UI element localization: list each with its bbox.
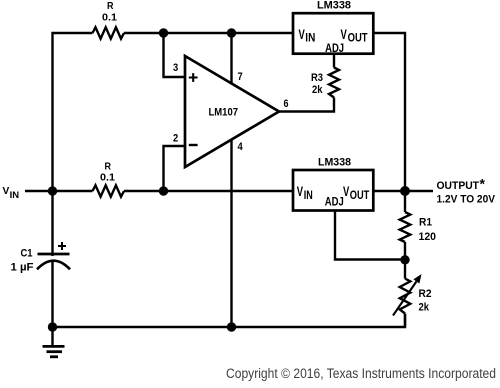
svg-text:R: R [107, 1, 114, 12]
label Vin input [3, 186, 20, 200]
svg-text:2k: 2k [419, 302, 430, 314]
node: junction ground bus / pin4 [227, 322, 236, 331]
svg-text:ADJ: ADJ [325, 195, 344, 209]
wire: pin 4 branch down to ground bus [230, 140, 232, 327]
wire: Vin node down to C1 top plate [51, 191, 53, 256]
svg-text:V: V [297, 184, 303, 199]
op-amp plus input symbol [189, 73, 198, 82]
svg-text:2: 2 [173, 133, 178, 145]
svg-text:V: V [343, 184, 349, 199]
wire: left rail from Vin node up and top bus to R(top) [53, 33, 93, 191]
svg-text:LM107: LM107 [209, 107, 239, 119]
svg-text:1.2V TO 20V: 1.2V TO 20V [437, 194, 496, 206]
node: output junction [400, 186, 410, 196]
node: junction Vin / left rail [48, 186, 57, 195]
svg-text:LM338: LM338 [318, 157, 351, 169]
svg-text:IN: IN [10, 190, 20, 200]
variable resistor R2 2k [393, 274, 432, 316]
svg-text:120: 120 [419, 231, 437, 243]
wire: pin 3 branch [164, 33, 186, 77]
svg-text:2k: 2k [312, 84, 323, 96]
capacitor C1 1uF [11, 242, 71, 274]
svg-text:R1: R1 [419, 217, 432, 229]
wire: Vin bus from R(bottom) to U3 Vin [124, 190, 293, 192]
svg-text:3: 3 [173, 62, 178, 74]
pin label 2 [173, 133, 178, 145]
wire: U3 ADJ pin down and right to R1/R2 node [335, 211, 405, 260]
svg-text:V: V [341, 27, 347, 42]
svg-text:V: V [3, 186, 10, 197]
wire: R1 bottom through ADJ node to R2 top [404, 242, 406, 279]
wire: C1 bottom to ground bus [51, 262, 53, 327]
pin label 4 [238, 141, 244, 153]
svg-text:LM338: LM338 [317, 0, 351, 12]
regulator U3 LM338 (bottom) [293, 157, 373, 211]
pin label 3 [173, 62, 178, 74]
resistor R3 2k [311, 68, 339, 98]
wire: U3 Vout to output node [373, 190, 405, 192]
svg-text:R2: R2 [419, 288, 432, 300]
node: junction R1/R2/ADJ [400, 255, 409, 264]
ground symbol [43, 327, 65, 357]
svg-text:0.1: 0.1 [100, 172, 115, 184]
wire: top bus from R(top) to U2 Vin [124, 32, 293, 34]
wire: U2 Vout to right rail, rail down to R1 [373, 33, 405, 212]
wire: pin 2 branch [164, 146, 186, 191]
op-amp minus input symbol [189, 144, 198, 146]
svg-text:1 µF: 1 µF [11, 262, 34, 274]
svg-text:7: 7 [238, 71, 243, 83]
resistor R (top) 0.1 [93, 1, 125, 39]
pin label 7 [238, 71, 243, 83]
node: junction Vin / pin2 branch [159, 186, 168, 195]
node: junction top bus / pin7 branch [227, 28, 236, 37]
svg-text:IN: IN [304, 188, 313, 202]
wire: R3 top to U2 ADJ pin [333, 54, 335, 68]
op-amp U1 LM107 [185, 56, 279, 167]
svg-text:OUTPUT: OUTPUT [437, 180, 480, 192]
copyright text [226, 366, 496, 381]
wire: op-amp output pin 6 to R3 bottom [279, 98, 334, 112]
svg-text:4: 4 [238, 141, 244, 153]
wire: R2 bottom to ground bus [404, 314, 406, 328]
svg-text:ADJ: ADJ [325, 41, 344, 55]
svg-text:C1: C1 [21, 248, 33, 260]
svg-text:OUT: OUT [350, 188, 370, 202]
node: junction top bus / pin3 branch [159, 28, 168, 37]
node: junction ground bus / C1 [48, 322, 57, 331]
resistor R1 120 [400, 212, 436, 243]
svg-text:R3: R3 [311, 72, 323, 84]
svg-text:OUT: OUT [348, 31, 369, 45]
pin label 6 [284, 98, 289, 110]
wire: output stub [405, 190, 433, 192]
wire: ground bus [53, 314, 406, 328]
svg-text:IN: IN [305, 31, 315, 45]
label OUTPUT* [437, 176, 496, 206]
resistor R (bottom) 0.1 [93, 162, 125, 197]
svg-text:6: 6 [284, 98, 289, 110]
wire: pin 7 branch [230, 33, 232, 85]
svg-text:*: * [480, 176, 486, 192]
svg-text:Copyright © 2016, Texas Instru: Copyright © 2016, Texas Instruments Inco… [226, 366, 496, 381]
svg-text:0.1: 0.1 [102, 12, 117, 24]
svg-text:V: V [299, 27, 305, 42]
regulator U2 LM338 (top) [293, 0, 373, 55]
wire: Vin lead to R(bottom) [25, 190, 93, 192]
